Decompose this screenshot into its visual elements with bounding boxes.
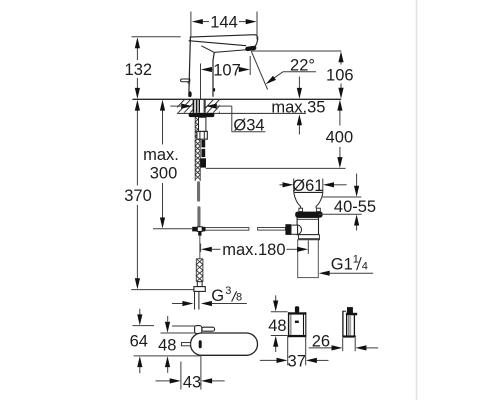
G1 1/4 leader [330,272,374,274]
side box top bar [346,313,357,316]
waste tube [298,240,319,278]
dim 40-55 arrow tails [356,174,358,187]
label G1 1/4 [331,254,368,274]
G3/8 leader [172,303,183,305]
dim 37 tails [260,359,277,361]
braided hose upper [197,181,200,201]
106 arrows [338,51,343,62]
waste body [297,218,318,235]
107 arrows [201,67,212,72]
lever support diagonal [187,82,189,85]
connector bulge [298,225,302,235]
funnel rim [294,191,323,193]
box bottom edge bar [288,335,306,337]
funnel left ring [299,208,303,211]
dim 48R ref lines [271,311,288,313]
dim 26 ext lines [342,338,344,351]
dim 400 bottom tick [206,167,346,169]
svg-text:G: G [211,287,224,305]
tee left black fitting [192,227,197,232]
max300 arrows [160,100,165,111]
svg-text:Ø61: Ø61 [292,177,323,195]
G1 1/4 arrow [319,271,330,276]
box left edge [288,312,290,337]
svg-text:106: 106 [326,66,354,84]
svg-text:107: 107 [213,62,241,80]
48R arrows [273,301,278,312]
svg-text:8: 8 [236,292,242,304]
shank nut [197,131,207,139]
40-55 arrows [354,186,359,197]
max35 arrows [297,88,302,99]
dim 48L ref line [161,332,197,334]
dim 26 tails [309,347,332,349]
tee bottom stub [198,231,201,235]
22deg spray line [251,51,267,90]
dim 64 arrow tails [139,309,141,315]
svg-text:64: 64 [130,332,148,350]
svg-text:132: 132 [125,61,153,79]
400 arrows [337,100,342,111]
dim 107 line [212,69,214,71]
64 arrows [137,314,142,325]
dim O61 tails [280,184,284,186]
dim 48R arrow tails [275,295,277,301]
svg-text:370: 370 [124,187,152,205]
label G3/8 [211,285,242,305]
box left inner shading [290,315,292,335]
faucet front (right) edge [213,52,214,96]
dim O34 leader [170,105,181,107]
tail pipe lines [194,291,196,309]
side nipple [347,307,353,313]
rubber seal band (black) [295,212,322,218]
svg-text:48: 48 [268,317,286,335]
dim 132 line [136,48,138,61]
rod end connector [291,225,298,234]
tail neck [197,282,202,287]
132 arrows [135,37,140,48]
deck bottom line [177,112,306,114]
dim max180 ext lines [200,244,202,253]
dim max35 arrows lines [298,77,300,89]
tee right black fitting [202,227,205,232]
deck top line [132,98,341,100]
dim max180 tails [212,248,221,250]
funnel left side [294,192,301,208]
svg-text:max.: max. [143,146,179,164]
horizontal rod segment 1 [205,228,249,231]
shank cylinder [199,117,206,131]
svg-text:26: 26 [312,332,330,350]
dim max300 bottom tick [153,228,192,230]
svg-text:Ø34: Ø34 [233,117,264,135]
dim 132 ref line [132,36,181,38]
svg-text:max.35: max.35 [271,99,325,117]
threaded rod cross-hatch column [195,117,200,181]
dim 43 ext lines [180,362,182,390]
svg-text:1: 1 [353,254,359,266]
dim 144 ext lines [190,12,192,37]
faucet far top edge [190,35,256,37]
dim 144 line [203,21,210,23]
horizontal rod segment 2 [258,228,286,231]
dim 43 tails [156,380,171,382]
dim 64 ref lines [132,325,154,327]
aerator [245,45,257,51]
dim 37 ext lines [287,336,289,366]
base bump [189,91,192,97]
svg-text:40-55: 40-55 [334,198,376,216]
waste flange [299,235,320,240]
svg-text:300: 300 [150,165,178,183]
dim max300 line [162,111,164,145]
svg-text:4: 4 [362,260,368,272]
svg-text:43: 43 [183,373,201,391]
page divider line [416,0,418,400]
faucet back edge [189,37,191,97]
svg-text:144: 144 [210,14,238,32]
spout tip curve [255,35,258,47]
faucet near top edge [189,41,247,46]
funnel right side [316,192,323,208]
funnel right ring [317,208,321,211]
dim 22deg underline + leader [283,71,316,73]
svg-text:3: 3 [225,285,231,297]
rod coupling (black) [285,224,291,235]
hose below tee [199,236,201,259]
shank through-hole stripes [193,100,206,113]
144 arrows [192,19,203,24]
22deg leader arrow [266,76,276,85]
side box left edge [342,311,344,338]
svg-text:G1: G1 [331,255,353,273]
mounting washer (black) [189,113,215,117]
box label dash [295,321,299,323]
svg-text:37: 37 [288,353,306,371]
braided hose lower [197,206,200,227]
dim 370 bottom ref line [131,289,194,291]
370 arrows [135,100,140,111]
side box right edge [353,315,355,338]
dim 40-55 ref lines [323,196,362,198]
cartridge slot [199,340,202,348]
cable fitting [200,158,206,167]
svg-text:22°: 22° [290,56,315,74]
side box inner line [346,313,348,338]
svg-text:max.180: max.180 [222,241,285,259]
tail cross-hatch column [196,259,203,282]
box top edge bar [288,312,306,314]
48L arrows [165,322,170,333]
dim 370 line [136,111,138,186]
O61 arrows [283,182,294,187]
side box striped band [348,315,352,335]
control lever bar [202,327,215,331]
dim 106 line [340,60,342,65]
43 arrows [170,378,181,383]
svg-text:400: 400 [326,129,354,147]
inlet pin [181,343,190,346]
black cable segments [201,140,205,148]
tee white center [197,227,202,232]
dim 400 line [339,110,341,126]
tail hex nut [194,287,205,292]
box right edge lines [303,315,305,335]
control unit body capsule [191,333,258,355]
spout underside edge [214,50,246,53]
G3/8 arrows [182,301,193,306]
box nipple [295,306,299,313]
dim 48L arrow tails [167,316,169,322]
37 arrows [277,358,288,363]
26 arrows [332,345,343,350]
control lever knob [195,326,202,334]
svg-text:48: 48 [158,336,176,354]
side box bottom bar [344,335,356,337]
dim 107 ext lines [200,64,202,100]
dim O61 ext lines [293,179,295,193]
waste body inner line [297,219,318,221]
dim 106/400 ref top line [252,50,341,52]
O34 arrows [181,104,192,109]
shoulder diagonal [201,46,214,53]
max180 arrows [201,247,212,252]
waste flange black bottom [299,238,320,240]
temperature lever [181,79,190,82]
sensor window [213,88,215,91]
